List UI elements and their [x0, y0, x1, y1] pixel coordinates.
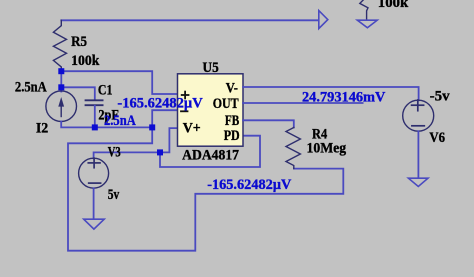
svg-text:I2: I2: [36, 120, 48, 136]
ground below V6: [408, 178, 428, 186]
ground below top-right resistor: [357, 20, 377, 28]
svg-text:2.5nA: 2.5nA: [104, 113, 136, 129]
junction node I2 top: [58, 84, 64, 90]
capacitor C1: [86, 100, 103, 105]
svg-text:OUT: OUT: [213, 96, 239, 112]
junction node minus net: [149, 124, 155, 130]
junction node V3 rail: [157, 149, 163, 155]
svg-text:PD: PD: [224, 128, 240, 144]
svg-text:U5: U5: [203, 60, 219, 76]
junction node C1 bottom: [92, 124, 98, 130]
svg-text:100k: 100k: [71, 53, 100, 69]
wire minus input riser: [152, 110, 177, 127]
svg-text:V6: V6: [429, 130, 445, 146]
svg-text:ADA4817: ADA4817: [182, 148, 239, 164]
resistor 100k top right (clipped): [360, 0, 368, 20]
wire minus net long loop: [68, 127, 343, 250]
svg-text:24.793146mV: 24.793146mV: [302, 90, 386, 106]
resistor R5 100k: [53, 20, 66, 71]
svg-text:C1: C1: [98, 83, 113, 99]
wire OUT pin: [243, 102, 363, 104]
svg-text:V+: V+: [183, 121, 201, 137]
svg-text:100k: 100k: [378, 0, 409, 11]
op-amp U5 body (ADA4817): [178, 74, 244, 146]
wire V6 bottom lead: [417, 131, 419, 178]
wire R5 bottom to + input: [62, 71, 178, 94]
svg-text:5v: 5v: [108, 187, 120, 203]
op-amp plus minus marks: [181, 92, 189, 112]
wire C1 bottom lead: [94, 106, 96, 128]
wire node down to I2 top: [60, 71, 62, 91]
wire FB pin to R4: [243, 120, 294, 127]
current source I2: [46, 91, 77, 122]
svg-text:-5v: -5v: [430, 88, 451, 104]
svg-text:V3: V3: [108, 145, 121, 161]
svg-text:V-: V-: [226, 80, 238, 96]
wire top net from R5 to arrow: [61, 19, 318, 21]
voltage source V3: [79, 158, 109, 188]
wire PD loop: [160, 136, 260, 167]
wire V- pin to V6: [243, 87, 419, 100]
wire I2 bottom / minus net bottom rail: [61, 122, 152, 128]
wire to C1 top: [61, 87, 95, 99]
arrow output flag: [319, 11, 328, 29]
svg-text:2.5nA: 2.5nA: [15, 80, 47, 96]
svg-text:10Meg: 10Meg: [307, 140, 347, 156]
junction node R5 bottom: [58, 68, 64, 74]
svg-text:-165.62482µV: -165.62482µV: [207, 177, 291, 193]
svg-text:R5: R5: [71, 34, 87, 50]
svg-text:FB: FB: [225, 113, 240, 129]
resistor R4 10Meg: [286, 128, 300, 169]
voltage source V6: [403, 100, 434, 131]
wire V3 bottom lead: [93, 188, 95, 219]
wire V3 plus rail to V+ pin: [94, 128, 178, 158]
ground below V3: [84, 219, 105, 229]
svg-text:-165.62482µV: -165.62482µV: [117, 96, 203, 112]
